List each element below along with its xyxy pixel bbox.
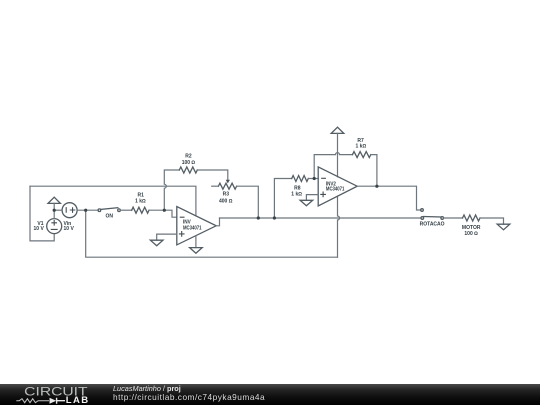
wire U2 V- pin down with hop over output line xyxy=(338,196,340,257)
wire switch to R1 xyxy=(120,209,131,211)
node dot R8 branch junction xyxy=(273,216,276,219)
wire U1 output line to switch ROTACAO xyxy=(220,217,422,219)
wire U1 V- pin down xyxy=(195,236,197,248)
op-amp U2 INV2 triangle xyxy=(318,167,357,206)
wire V+ rail to op-amp U1 V+ pin xyxy=(30,186,196,216)
svg-text:ON: ON xyxy=(106,214,114,220)
svg-text:R3: R3 xyxy=(223,192,230,198)
svg-text:100 Ω: 100 Ω xyxy=(464,231,478,237)
svg-text:R2: R2 xyxy=(185,153,192,159)
svg-text:1 kΩ: 1 kΩ xyxy=(135,199,146,205)
potentiometer R3 wiper arrow xyxy=(226,180,230,184)
op-amp U2 plus glyph xyxy=(321,192,326,197)
power flag P2 xyxy=(331,127,344,133)
wire input node down to bottom rail xyxy=(86,210,338,257)
svg-text:1 kΩ: 1 kΩ xyxy=(291,192,302,198)
op-amp U1 INV triangle xyxy=(177,207,216,245)
svg-text:10 V: 10 V xyxy=(64,226,75,232)
wire R2 right to R3 wiper xyxy=(197,170,228,180)
resistor R1 xyxy=(132,207,149,213)
potentiometer R3 xyxy=(218,183,236,189)
wire R3 left lead xyxy=(212,185,219,187)
svg-text:MC34071: MC34071 xyxy=(326,187,345,193)
svg-text:http://circuitlab.com/c74pyka9: http://circuitlab.com/c74pyka9uma4a xyxy=(113,392,265,402)
svg-text:1 kΩ: 1 kΩ xyxy=(356,143,367,149)
wire P1 stem xyxy=(53,203,55,210)
wire R7 feedback left leg xyxy=(314,153,352,179)
wire U1 output jog xyxy=(216,218,219,226)
voltage source Vin xyxy=(62,203,77,218)
switch ROTACAO xyxy=(421,209,424,212)
switch ON xyxy=(98,209,101,212)
node dot V1/Vin junction xyxy=(53,209,56,212)
op-amp U2 minus glyph xyxy=(322,177,326,179)
wire R1 to node A xyxy=(149,209,164,211)
wire MOTOR to ground xyxy=(480,218,504,224)
op-amp U1 plus glyph xyxy=(179,232,184,237)
footer bar xyxy=(0,384,540,405)
ground G2 xyxy=(190,248,203,254)
wire node A jog to U1 inverting input xyxy=(164,210,177,217)
svg-text:10 V: 10 V xyxy=(34,226,45,232)
resistor MOTOR xyxy=(463,215,481,221)
wire P2 stem to U2 V+ pin xyxy=(337,133,339,176)
op-amp U1 minus glyph xyxy=(180,216,184,218)
node dot A R1/R2 junction xyxy=(163,209,166,212)
footer logo resistor squiggle xyxy=(16,399,49,403)
resistor R2 xyxy=(179,167,197,173)
wire switch to MOTOR xyxy=(444,217,463,219)
ground G4 xyxy=(497,224,510,230)
node dot input branch xyxy=(84,209,87,212)
wire R3 right lead down to output line xyxy=(237,186,259,218)
wire R7 right leg down to output xyxy=(371,155,377,187)
wire node A up to R2 with hop over rail xyxy=(164,170,179,210)
svg-text:ROTACAO: ROTACAO xyxy=(420,221,445,227)
wire left loop V1 minus to V+ rail xyxy=(30,186,54,241)
wire Vin left to node xyxy=(54,209,62,211)
wire R8 to U2 inverting input xyxy=(308,178,318,180)
wire Vin right to switch ON xyxy=(77,209,98,211)
node dot R3 output junction xyxy=(257,216,260,219)
wire U2 non-inverting input to ground xyxy=(306,195,318,201)
svg-text:MC34071: MC34071 xyxy=(183,225,202,231)
svg-text:400 Ω: 400 Ω xyxy=(219,198,233,204)
svg-text:LAB: LAB xyxy=(66,395,90,405)
wire R8 branch from output line xyxy=(274,179,291,219)
ground G3 xyxy=(300,200,313,206)
power flag P1 xyxy=(48,197,60,203)
resistor R7 xyxy=(353,152,371,158)
resistor R8 xyxy=(292,176,309,182)
node dot R7/R8 inverting input xyxy=(313,177,316,180)
voltage source V1 xyxy=(47,219,62,234)
wire U1 non-inverting input to ground xyxy=(157,234,177,240)
svg-text:R8: R8 xyxy=(294,185,301,191)
ground G1 xyxy=(150,240,163,246)
node dot R7 output junction xyxy=(375,185,378,188)
svg-text:100 Ω: 100 Ω xyxy=(182,160,196,166)
footer logo diode xyxy=(50,398,57,404)
wire U2 output to switch ROTACAO upper contact xyxy=(357,186,421,210)
